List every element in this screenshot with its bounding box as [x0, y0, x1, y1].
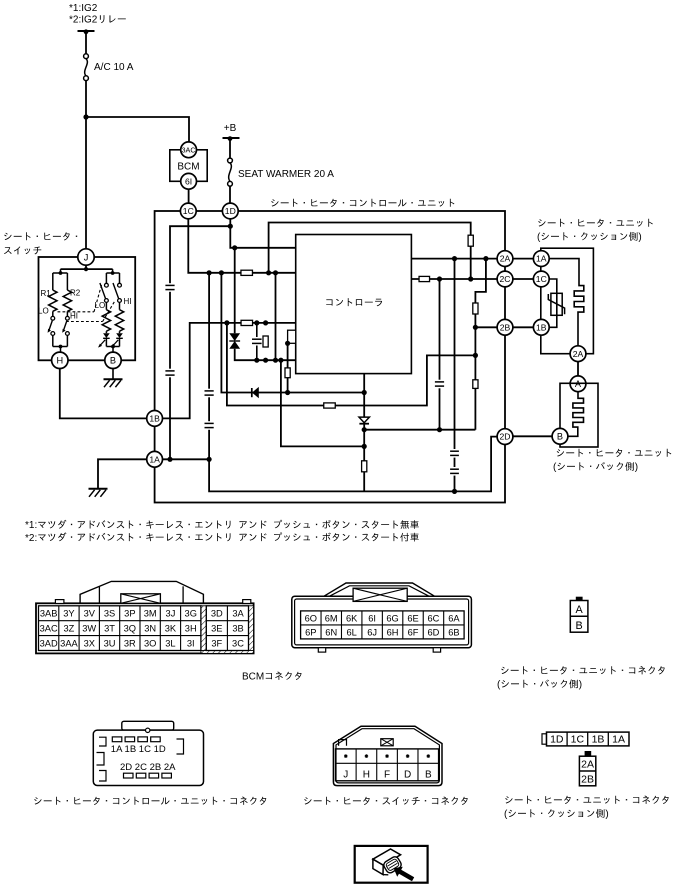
svg-text:6I: 6I: [185, 176, 192, 186]
svg-text:B: B: [110, 356, 116, 366]
svg-text:2A: 2A: [573, 349, 584, 359]
svg-text:A: A: [575, 604, 583, 616]
svg-text:2A: 2A: [500, 254, 511, 264]
svg-text:3U: 3U: [104, 638, 116, 648]
svg-text:3T: 3T: [104, 624, 115, 634]
svg-text:1A 1B 1C 1D: 1A 1B 1C 1D: [111, 744, 166, 755]
svg-text:1C: 1C: [536, 274, 547, 284]
svg-text:6P: 6P: [305, 627, 316, 637]
svg-text:A/C 10 A: A/C 10 A: [94, 62, 134, 73]
svg-text:3O: 3O: [144, 638, 156, 648]
svg-text:F: F: [384, 770, 390, 781]
svg-text:6D: 6D: [427, 627, 439, 637]
svg-text:+B: +B: [224, 123, 237, 134]
svg-text:SEAT WARMER 20 A: SEAT WARMER 20 A: [238, 169, 334, 180]
svg-text:HI: HI: [70, 312, 78, 321]
svg-text:1C: 1C: [183, 206, 194, 216]
svg-text:BCM: BCM: [242, 672, 264, 683]
svg-text:1A: 1A: [149, 454, 160, 464]
svg-text:3E: 3E: [211, 624, 222, 634]
svg-text:6J: 6J: [367, 627, 377, 637]
svg-text:1B: 1B: [592, 734, 605, 746]
svg-text:R1: R1: [41, 289, 52, 298]
svg-text:2B: 2B: [581, 773, 594, 785]
svg-text:BCM: BCM: [177, 162, 199, 173]
svg-text:3G: 3G: [185, 609, 197, 619]
svg-text:3M: 3M: [144, 609, 157, 619]
svg-text:1A: 1A: [612, 734, 625, 746]
svg-text:A: A: [575, 379, 582, 389]
svg-text:3AC: 3AC: [181, 145, 195, 154]
svg-text:3K: 3K: [165, 624, 177, 634]
svg-text:3A: 3A: [232, 609, 244, 619]
svg-text:6H: 6H: [387, 627, 399, 637]
svg-text:3V: 3V: [84, 609, 96, 619]
svg-text:3AB: 3AB: [40, 609, 58, 619]
svg-text:): ): [638, 232, 641, 243]
svg-text:6M: 6M: [325, 613, 338, 623]
svg-text:B: B: [425, 770, 432, 781]
svg-text:6C: 6C: [427, 613, 439, 623]
svg-text:2D: 2D: [500, 432, 511, 442]
svg-text:6E: 6E: [407, 613, 418, 623]
svg-text:3D: 3D: [211, 609, 223, 619]
svg-text:3R: 3R: [124, 638, 136, 648]
svg-text:H: H: [363, 770, 370, 781]
svg-text:3W: 3W: [82, 624, 96, 634]
svg-text:D: D: [404, 770, 411, 781]
svg-text:J: J: [84, 252, 89, 262]
svg-text:3P: 3P: [124, 609, 135, 619]
svg-text:2B: 2B: [500, 322, 511, 332]
svg-text:B: B: [575, 620, 582, 632]
svg-text:H: H: [56, 356, 63, 366]
svg-text:1A: 1A: [536, 254, 547, 264]
svg-text:3X: 3X: [84, 638, 95, 648]
svg-text:2D 2C 2B 2A: 2D 2C 2B 2A: [120, 762, 176, 773]
svg-text:R2: R2: [70, 289, 81, 298]
svg-text:1B: 1B: [149, 413, 160, 423]
svg-text:1D: 1D: [225, 206, 236, 216]
svg-text:3AD: 3AD: [40, 638, 58, 648]
svg-text:): ): [605, 809, 608, 820]
svg-text:): ): [579, 680, 582, 691]
svg-text:6F: 6F: [408, 627, 419, 637]
svg-text:HI: HI: [124, 297, 132, 306]
svg-text:3N: 3N: [144, 624, 156, 634]
svg-text:2C: 2C: [500, 274, 511, 284]
svg-text:1B: 1B: [536, 322, 547, 332]
svg-text:3S: 3S: [104, 609, 115, 619]
svg-text:3I: 3I: [187, 638, 195, 648]
svg-text:3H: 3H: [185, 624, 197, 634]
svg-text:3AA: 3AA: [60, 638, 78, 648]
svg-text:6B: 6B: [448, 627, 459, 637]
svg-text:LO: LO: [38, 307, 49, 316]
svg-text:3Z: 3Z: [64, 624, 75, 634]
svg-text:3L: 3L: [165, 638, 175, 648]
svg-text:6I: 6I: [368, 613, 376, 623]
svg-text:1C: 1C: [571, 734, 585, 746]
svg-text:3AC: 3AC: [40, 624, 58, 634]
svg-text:6N: 6N: [325, 627, 337, 637]
svg-text:6K: 6K: [346, 613, 358, 623]
svg-text:*2:: *2:: [25, 533, 37, 544]
svg-text:): ): [635, 462, 638, 473]
svg-text:6O: 6O: [305, 613, 317, 623]
svg-text:1D: 1D: [550, 734, 564, 746]
svg-text:2A: 2A: [581, 759, 594, 771]
svg-text:3Q: 3Q: [124, 624, 136, 634]
svg-text:*1:IG2: *1:IG2: [69, 3, 98, 14]
svg-text:*1:: *1:: [25, 520, 37, 531]
svg-text:3F: 3F: [211, 638, 222, 648]
svg-text:3J: 3J: [166, 609, 176, 619]
svg-text:B: B: [557, 432, 563, 442]
svg-text:3B: 3B: [232, 624, 243, 634]
svg-text:3Y: 3Y: [63, 609, 74, 619]
svg-text:6L: 6L: [347, 627, 357, 637]
svg-text:J: J: [343, 770, 348, 781]
svg-text:6A: 6A: [448, 613, 460, 623]
svg-text:6G: 6G: [386, 613, 398, 623]
svg-text:*2:IG2: *2:IG2: [69, 15, 98, 26]
svg-text:3C: 3C: [232, 638, 244, 648]
